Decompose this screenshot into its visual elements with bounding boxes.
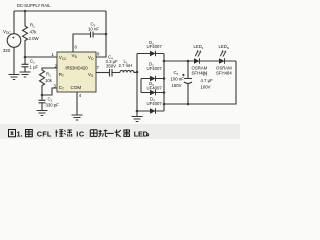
wire Vdc to rail [13, 11, 15, 34]
svg-text:320: 320 [3, 48, 11, 53]
node A junction L1 out [136, 71, 139, 74]
wire VB pin 6 up [73, 34, 90, 52]
inductor L1 [120, 70, 137, 72]
svg-text:SFH484: SFH484 [192, 71, 208, 76]
char 长 [115, 130, 121, 137]
char 用 [26, 130, 33, 137]
wire to pin 1 [25, 56, 57, 58]
ground (VDC) [9, 75, 20, 80]
ground (C2) [37, 111, 48, 116]
resistor R2 [40, 68, 58, 95]
svg-text:UF4007: UF4007 [147, 101, 163, 106]
ground (C1) [20, 72, 31, 77]
svg-text:COM: COM [71, 85, 82, 90]
capacitor C2 [39, 95, 46, 110]
junction C6 top [187, 60, 190, 63]
svg-text:350V: 350V [106, 64, 116, 69]
svg-text:+: + [12, 36, 15, 42]
LED LEDN [219, 58, 225, 64]
wire D2-D3 bracket [140, 79, 142, 93]
junction C5/rail [105, 33, 108, 36]
junction bottom rail / right ladder rail [163, 103, 166, 106]
svg-text:1 µF: 1 µF [30, 65, 39, 70]
junction C6 bottom [187, 103, 190, 106]
wire right edge return [164, 61, 236, 104]
char 。 [146, 134, 148, 136]
wire VS pin 7 [96, 72, 109, 74]
svg-text:2.7 mH: 2.7 mH [119, 63, 133, 68]
junction D2 right [163, 77, 166, 80]
source VDC [7, 34, 21, 48]
diode D4 [137, 110, 164, 112]
wire Vdc to ground [13, 47, 15, 74]
char 串 [124, 129, 130, 137]
diode D1 [137, 53, 164, 55]
wire right ladder rail [163, 54, 165, 112]
svg-text:CFL: CFL [37, 129, 52, 138]
capacitor C4 [110, 69, 121, 77]
svg-text:IC: IC [76, 129, 85, 138]
svg-text:1.: 1. [17, 129, 23, 138]
ground (ladder) [132, 117, 143, 122]
char 图 [9, 130, 16, 137]
char 一 [106, 132, 113, 134]
svg-text:160V: 160V [172, 83, 182, 88]
wire COM pin 4 to ground [76, 92, 78, 115]
wire left ladder rail [136, 54, 138, 117]
capacitor C6 [184, 61, 192, 104]
svg-text:UF4007: UF4007 [147, 66, 163, 71]
svg-text:SFH484: SFH484 [216, 71, 232, 76]
svg-text:10 nF: 10 nF [88, 27, 99, 32]
svg-text:10k: 10k [45, 78, 53, 83]
char 流 [64, 130, 72, 137]
capacitor C1 [22, 57, 29, 72]
wire rail down to VD pin 8 [96, 11, 106, 57]
svg-text:UF4007: UF4007 [147, 86, 163, 91]
svg-text:47k: 47k [30, 30, 38, 35]
junction rail/R1 [24, 10, 27, 13]
junction R2/C2/CT [41, 94, 44, 97]
char 驱 [90, 130, 97, 137]
svg-text:UF4007: UF4007 [147, 44, 163, 49]
junction LED row [163, 60, 166, 63]
char 镇 [55, 130, 63, 137]
resistor R1 [23, 11, 28, 57]
svg-text:LED: LED [134, 129, 148, 138]
diode D3 [141, 92, 164, 94]
op-amp U1 IC IR53HD420 [57, 52, 96, 92]
diode D2 [141, 78, 164, 80]
ground (COM) [72, 115, 83, 120]
caption 图1，用 CFL 镇流 IC 驱动一长串 LED。 [9, 129, 149, 138]
svg-text:IR53HD420: IR53HD420 [65, 65, 88, 70]
wire LED row [164, 60, 236, 62]
wire top rail [14, 10, 106, 12]
wire CT step [42, 88, 57, 95]
svg-text:330 pF: 330 pF [46, 103, 60, 108]
char 动 [99, 130, 108, 137]
svg-text:100V: 100V [201, 85, 211, 90]
svg-text:DC-SUPPLY RAIL: DC-SUPPLY RAIL [17, 3, 51, 8]
svg-text:2.0W: 2.0W [29, 36, 40, 41]
LED LED1 [194, 58, 200, 64]
junction R1/C1/VCC [24, 56, 27, 59]
svg-text:100 nF: 100 nF [171, 77, 185, 82]
junction D4 left [136, 110, 139, 113]
svg-text:4.7 µF: 4.7 µF [201, 78, 214, 83]
capacitor C5 [91, 32, 107, 38]
junction D3 right [163, 91, 166, 94]
